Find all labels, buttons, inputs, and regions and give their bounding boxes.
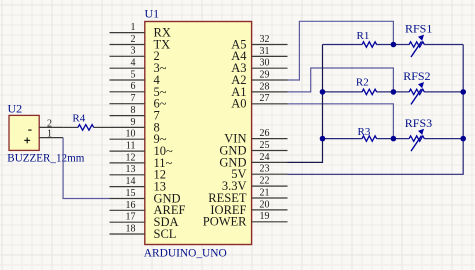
resistor R3 [358,126,377,141]
wire A0 (pin27) to R3/RFS3 junction [288,104,394,139]
U1 pin 2 (TX) [110,34,171,52]
resistor R3 row wire [323,138,464,140]
U1 pin 10 (9~) [110,129,167,147]
svg-text:28: 28 [260,81,270,92]
U1 pin 15 (GND) [110,188,181,206]
U1 pin 4 (3~) [110,58,167,76]
U1 pin 17 (SDA) [110,212,179,230]
svg-text:R3: R3 [358,126,371,138]
resistor R2 row wire [323,91,464,93]
svg-text:30: 30 [260,58,270,69]
svg-text:31: 31 [260,46,270,57]
svg-text:13: 13 [126,164,136,175]
svg-text:A0: A0 [231,97,246,111]
svg-text:1: 1 [131,22,136,33]
U1 pin 14 (13) [110,176,167,194]
U1 pin 7 (6~) [110,93,167,111]
U1 pin 19 (POWER) [203,211,288,229]
U1 pin 26 (VIN) [224,128,287,146]
svg-text:12: 12 [126,152,136,163]
svg-text:17: 17 [126,212,136,223]
wire buzzer pin1 to U1 GND pin15 [63,138,109,199]
U1 pin 31 (A4) [231,46,287,63]
U2 pin 2 [39,119,63,130]
U1 pin 12 (11~) [110,152,173,170]
wire A1 (pin28) loop to R2/RFS2 junction [288,68,394,92]
U1 pin 3 (2) [110,46,160,64]
junction 5V bus RFS2 [460,89,466,95]
potentiometer RFS3 [405,116,432,151]
svg-text:9: 9 [131,117,136,128]
svg-text:14: 14 [126,176,136,187]
U1 pin 25 (GND) [219,140,287,158]
resistor R2 [356,77,377,95]
junction R1/RFS1/A2 [391,42,397,48]
svg-text:22: 22 [260,176,270,187]
svg-text:15: 15 [126,188,136,199]
svg-text:27: 27 [260,93,270,104]
resistor R4 [63,112,109,130]
wire 5V bus (pin23 to RFS right ends) [288,45,464,175]
buzzer U2 body [9,115,39,150]
potentiometer RFS1 [405,21,432,57]
U1 pin 11 (10~) [110,141,174,159]
svg-text:R1: R1 [357,30,370,42]
svg-text:10: 10 [126,129,136,140]
svg-text:23: 23 [260,164,270,175]
U1 pin 23 (5V) [231,164,287,182]
wire A2 (pin29) top loop to R1/RFS1 junction [288,21,394,80]
svg-text:24: 24 [260,152,270,163]
svg-text:3: 3 [131,46,136,57]
U1 pin 29 (A2) [231,70,287,88]
svg-text:32: 32 [260,34,270,45]
value label ARDUINO_UNO [144,247,227,259]
svg-text:25: 25 [260,140,270,151]
svg-text:BUZZER_12mm: BUZZER_12mm [7,152,84,164]
U1 pin 27 (A0) [231,93,287,111]
U1 pin 20 (IOREF) [210,199,287,217]
svg-text:16: 16 [126,200,136,211]
junction GND bus R2 [320,89,326,95]
junction R2/RFS2/A1 [391,89,397,95]
U1 pin 5 (4) [110,69,161,87]
wire GND bus (pin24 to R1,R2,R3 left ends) [288,45,323,163]
svg-text:20: 20 [260,199,270,210]
svg-text:6: 6 [131,81,136,92]
svg-text:5: 5 [131,69,136,80]
U1 pin 8 (7) [110,105,160,123]
svg-text:R2: R2 [356,77,369,89]
svg-text:8: 8 [131,105,136,116]
svg-text:RFS3: RFS3 [405,116,432,130]
svg-text:U1: U1 [145,7,160,21]
svg-text:21: 21 [260,187,270,198]
svg-text:7: 7 [131,93,136,104]
svg-text:RFS2: RFS2 [403,69,430,83]
designator U2 [8,101,23,115]
U1 pin 24 (GND) [219,152,287,170]
resistor R1 row wire [323,44,464,46]
junction R3/RFS3/A0 [391,136,397,142]
U1 pin 18 (SCL) [110,223,177,241]
svg-text:2: 2 [131,34,136,45]
U2 pin 1 [39,129,63,140]
U1 pin 30 (A3) [231,58,287,76]
junction GND bus R3 [320,136,326,142]
svg-text:26: 26 [260,128,270,139]
svg-text:1: 1 [47,129,52,140]
U1 pin 13 (12) [110,164,167,182]
U1 pin 21 (RESET) [208,187,287,205]
svg-text:19: 19 [260,211,270,222]
svg-text:R4: R4 [72,112,85,124]
U1 pin 9 (8) [110,117,160,135]
svg-text:ARDUINO_UNO: ARDUINO_UNO [144,247,227,259]
U1 pin 1 (RX) [110,22,171,40]
U1 pin 16 (AREF) [110,200,186,217]
U1 pin 22 (3.3V) [222,176,288,194]
svg-text:11: 11 [126,141,136,152]
svg-text:U2: U2 [8,101,23,115]
value label BUZZER_12mm [7,152,84,164]
svg-text:29: 29 [260,70,270,81]
svg-text:4: 4 [131,58,136,69]
svg-text:POWER: POWER [203,215,247,229]
svg-text:RFS1: RFS1 [405,21,432,35]
resistor R1 [357,30,377,47]
IC U1 ARDUINO_UNO body [145,22,252,245]
potentiometer RFS2 [403,69,430,104]
U1 pin 32 (A5) [231,34,287,52]
svg-text:18: 18 [126,223,136,234]
U1 pin 6 (5~) [110,81,167,99]
U1 pin 28 (A1) [231,81,287,99]
svg-text:SCL: SCL [154,227,177,241]
designator U1 [145,7,160,21]
junction 5V bus RFS3 [460,136,466,142]
